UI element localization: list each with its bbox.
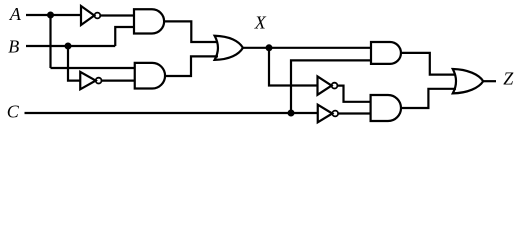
svg-text:A: A bbox=[9, 4, 22, 24]
wire X (OR1 output to AND3 upper input) bbox=[243, 47, 371, 49]
wire A2 output to OR1 lower input bbox=[165, 56, 218, 76]
or-gate O2 (output Z) bbox=[453, 69, 483, 93]
wire U3 output to AND4 upper input bbox=[337, 86, 370, 102]
and-gate A3 (top right) bbox=[371, 42, 401, 64]
wire C riser to AND3 lower input bbox=[291, 60, 371, 113]
wire A1 output to OR1 upper input bbox=[164, 21, 218, 42]
node B junction dot bbox=[65, 43, 72, 50]
wire A4 output to OR2 lower input bbox=[401, 89, 456, 108]
wire X riser to NOT3 input bbox=[269, 48, 318, 86]
inverter U1 (input A) bbox=[81, 6, 100, 25]
node X junction dot bbox=[266, 44, 273, 51]
wire A3 output to OR2 upper input bbox=[401, 53, 456, 75]
node A label bbox=[9, 4, 22, 24]
wire U1 output to AND1 upper input bbox=[100, 14, 134, 16]
inverter U2 (input B) bbox=[80, 72, 101, 89]
wire A to AND2 upper input bbox=[51, 67, 135, 69]
wire U4 output to AND4 lower input bbox=[338, 112, 371, 114]
or-gate O1 (output X) bbox=[215, 36, 243, 60]
node X label bbox=[254, 12, 267, 32]
and-gate A2 (lower left) bbox=[135, 63, 165, 89]
and-gate A1 (top left) bbox=[134, 9, 164, 33]
and-gate A4 (lower right) bbox=[371, 95, 401, 121]
wire C input bbox=[25, 112, 318, 114]
inverter U4 (input C) bbox=[318, 105, 338, 123]
node C label bbox=[7, 102, 20, 122]
svg-text:X: X bbox=[254, 12, 267, 32]
svg-text:B: B bbox=[8, 36, 19, 56]
svg-text:C: C bbox=[7, 102, 20, 122]
node C junction dot bbox=[288, 110, 295, 117]
node B label bbox=[8, 36, 19, 56]
wire B riser to NOT2 input bbox=[68, 46, 80, 81]
node A junction dot bbox=[47, 12, 54, 19]
wire B to AND1 lower input bbox=[115, 27, 134, 46]
node Z label bbox=[503, 69, 514, 89]
inverter U3 (input X) bbox=[318, 76, 338, 94]
wire Z output bbox=[483, 80, 496, 82]
wire B input bbox=[26, 45, 115, 47]
wire A riser down bbox=[49, 15, 51, 68]
wire A input bbox=[26, 14, 81, 16]
svg-text:Z: Z bbox=[503, 69, 514, 89]
wire U2 output to AND2 lower input bbox=[102, 79, 135, 81]
